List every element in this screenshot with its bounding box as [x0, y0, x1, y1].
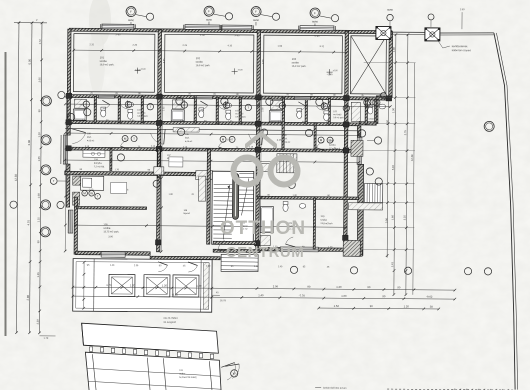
- bubble row lower: [121, 259, 128, 266]
- partition wall bath 7: [282, 98, 284, 124]
- wall pier left kitchen: [73, 176, 81, 185]
- svg-text:kerítéselemek: kerítéselemek: [452, 45, 468, 48]
- svg-text:4.01: 4.01: [26, 220, 30, 226]
- hatch band right side: [349, 203, 383, 210]
- interior small circles: [176, 97, 183, 104]
- svg-text:16,9 m2 park.: 16,9 m2 park.: [196, 64, 211, 67]
- outer wall bottom mid: [150, 256, 220, 260]
- svg-text:3.12: 3.12: [319, 45, 324, 48]
- terrace door arc 2: [188, 265, 197, 272]
- svg-text:2.36: 2.36: [134, 265, 139, 267]
- svg-text:16,9 m2 park.: 16,9 m2 park.: [100, 63, 115, 66]
- outer wall top: [69, 28, 392, 34]
- svg-text:1.72: 1.72: [38, 39, 42, 45]
- bubble right col 1: [373, 99, 380, 106]
- right dim ticks/labels: [395, 33, 398, 36]
- right dim vline a: [394, 35, 396, 295]
- bath window wall openings: [98, 95, 114, 98]
- svg-text:F: F: [255, 10, 257, 14]
- vert dim mid x163: [161, 97, 162, 252]
- bubble right col 3: [366, 168, 373, 175]
- svg-text:3=90: 3=90: [314, 36, 320, 38]
- svg-text:külön terv szerint: külön terv szerint: [452, 49, 471, 52]
- svg-text:12.38: 12.38: [410, 154, 414, 161]
- svg-text:1.20: 1.20: [196, 284, 202, 288]
- svg-text:közl.: közl.: [185, 137, 190, 139]
- dim chain lower rooms: [75, 225, 345, 227]
- svg-text:wc-fürdő: wc-fürdő: [235, 112, 244, 115]
- svg-text:90: 90: [370, 304, 374, 308]
- grid bubble top 1b: [146, 13, 153, 20]
- left dimension chain: [17, 23, 19, 333]
- svg-text:1.70: 1.70: [106, 283, 112, 287]
- grid bubble top 3: [251, 7, 261, 17]
- svg-text:4.65: 4.65: [164, 58, 166, 63]
- partition wall bath 3: [141, 97, 143, 123]
- partition wall bath 2: [118, 96, 120, 122]
- grid bubble top 2: [204, 6, 214, 16]
- partition right wing: [375, 98, 377, 123]
- svg-text:1.55: 1.55: [89, 188, 94, 191]
- svg-text:szoba: szoba: [292, 60, 300, 64]
- vert dim at x67: [65, 96, 66, 251]
- partition right unit b: [314, 123, 316, 150]
- steps right side: [365, 183, 383, 202]
- svg-text:közl.: közl.: [283, 138, 288, 140]
- svg-text:2.06: 2.06: [273, 284, 279, 288]
- svg-text:T: T: [247, 106, 249, 110]
- svg-text:berkbr tbd bötn terven: berkbr tbd bötn terven: [323, 387, 347, 390]
- svg-text:wc-fürdő: wc-fürdő: [333, 113, 342, 116]
- wall hall/mid y148: [68, 147, 359, 152]
- svg-text:4.10: 4.10: [227, 44, 232, 47]
- stair upper flight hatch: [277, 154, 297, 173]
- dim chain hall band: [65, 133, 359, 135]
- svg-text:1.40: 1.40: [110, 265, 115, 267]
- svg-text:1.62: 1.62: [334, 304, 340, 308]
- partition wall bath 8: [305, 98, 307, 124]
- vert dim x262: [260, 98, 261, 249]
- svg-text:3,9 m2 park: 3,9 m2 park: [235, 116, 246, 118]
- svg-text:F: F: [208, 9, 210, 13]
- svg-text:90/90: 90/90: [128, 20, 134, 22]
- svg-text:3,9 m2 park: 3,9 m2 park: [137, 116, 148, 118]
- window bay top 3: [222, 25, 252, 30]
- grid bubble top 4: [310, 8, 320, 18]
- bottom boundary dotted: [387, 388, 513, 390]
- dim chain mid band: [65, 160, 359, 162]
- svg-text:1.20: 1.20: [130, 283, 136, 287]
- watermark Otthon Centrum logo: [220, 131, 306, 261]
- svg-text:90/90: 90/90: [253, 20, 259, 22]
- grid bubble top 3b: [272, 13, 279, 20]
- wall rooms/bath y95: [69, 95, 391, 101]
- svg-text:38: 38: [430, 305, 434, 309]
- svg-text:7,2 m2 hid.: 7,2 m2 hid.: [94, 166, 105, 168]
- patio door arc: [227, 363, 235, 381]
- fence post 1: [376, 26, 391, 39]
- scan smudge top: [89, 0, 111, 46]
- svg-text:3,9 m2 park: 3,9 m2 park: [333, 117, 344, 119]
- svg-text:1.08: 1.08: [37, 193, 41, 199]
- outer wall right mid: [359, 122, 376, 125]
- svg-text:90: 90: [367, 285, 371, 289]
- kitchen fixtures left: [83, 150, 105, 157]
- unit divider wall 1: [156, 30, 161, 252]
- wall bath/hall y122: [69, 121, 360, 126]
- right extension lines: [364, 61, 416, 63]
- wall dining/living y207: [77, 206, 147, 209]
- svg-text:lépcső: lépcső: [183, 213, 190, 215]
- svg-text:103: 103: [292, 57, 297, 61]
- window bay top 4: [300, 26, 334, 31]
- svg-text:1.60: 1.60: [206, 266, 211, 268]
- partition wall bath 1: [94, 96, 96, 122]
- svg-text:T: T: [149, 105, 151, 109]
- svg-text:szoba: szoba: [103, 226, 111, 230]
- fence note leader: [437, 39, 443, 48]
- svg-text:2.25: 2.25: [182, 44, 187, 47]
- bubble right mid: [484, 121, 494, 131]
- svg-text:szoba: szoba: [100, 59, 108, 63]
- svg-text:szoba: szoba: [320, 219, 327, 222]
- svg-text:1.15: 1.15: [36, 217, 40, 223]
- wall block bottom right hatch: [343, 240, 360, 256]
- hatch pier hall1: [154, 167, 164, 175]
- room 103 inner outline: [263, 35, 342, 94]
- svg-text:3.25: 3.25: [402, 215, 406, 221]
- svg-text:-9.62: -9.62: [426, 295, 433, 299]
- outer wall right step: [376, 96, 390, 99]
- svg-text:1.50: 1.50: [460, 8, 465, 11]
- outer wall right upper: [389, 32, 393, 98]
- partition lower right: [313, 198, 315, 249]
- window bay top 1: [102, 24, 134, 29]
- svg-text:3=90: 3=90: [234, 35, 240, 37]
- svg-text:12.38: 12.38: [14, 174, 18, 181]
- svg-text:3=90: 3=90: [115, 34, 121, 36]
- svg-text:T: T: [97, 194, 99, 198]
- svg-text:2.20: 2.20: [36, 319, 40, 325]
- entry steps: [221, 254, 258, 271]
- bathroom unit2 fixtures: [172, 100, 184, 109]
- window bay left lower: [68, 210, 73, 233]
- entry door arc: [218, 240, 224, 250]
- partition hall 1: [110, 148, 112, 170]
- pantry room left: [81, 176, 104, 190]
- grid bubble top 1: [126, 7, 136, 17]
- bubble left D: [41, 200, 51, 210]
- chimney hatch block right: [351, 140, 363, 156]
- svg-text:90: 90: [307, 285, 311, 289]
- svg-text:W: W: [90, 191, 93, 195]
- bottom tick marks: [452, 389, 455, 390]
- svg-text:szoba: szoba: [329, 144, 336, 147]
- svg-text:D6-T6 7MM4: D6-T6 7MM4: [164, 317, 179, 320]
- bathroom unit3 fixtures: [270, 101, 282, 110]
- svg-text:2.31: 2.31: [89, 43, 94, 46]
- svg-text:1.70: 1.70: [43, 337, 48, 340]
- unit divider wall 3: [344, 31, 349, 248]
- unit divider wall 2: [256, 31, 261, 250]
- fence top rail: [391, 31, 425, 33]
- partition mid unit: [207, 149, 211, 244]
- svg-text:1.80: 1.80: [392, 47, 396, 53]
- fence diagonal right: [491, 33, 518, 390]
- svg-text:2.50: 2.50: [385, 119, 389, 125]
- bubble left B: [41, 135, 51, 145]
- outer wall left mid: [66, 164, 70, 207]
- svg-text:90/90: 90/90: [312, 21, 318, 23]
- bubble left F: [10, 201, 17, 208]
- dim chain bottom 2: [73, 296, 455, 299]
- bubble W terrace: [231, 370, 238, 377]
- bubble above post2: [428, 14, 434, 20]
- hatch pier mid: [258, 164, 270, 172]
- svg-text:közl.: közl.: [87, 137, 92, 139]
- svg-text:CENTRUM: CENTRUM: [226, 244, 305, 261]
- svg-text:3.90: 3.90: [108, 235, 113, 238]
- svg-text:1.40: 1.40: [278, 266, 283, 268]
- wall hall y128 line: [65, 129, 359, 131]
- svg-text:1.05: 1.05: [37, 156, 41, 162]
- partition kitchen right: [158, 149, 161, 178]
- svg-text:1.40: 1.40: [258, 293, 264, 297]
- svg-text:16,9 m2 park.: 16,9 m2 park.: [292, 65, 307, 68]
- terrace inner dim: [83, 262, 85, 308]
- partition wall bath 10: [365, 98, 367, 124]
- room 101 inner outline: [73, 34, 154, 93]
- bathroom unit1 fixtures: [74, 99, 86, 108]
- svg-text:1.20: 1.20: [162, 284, 168, 288]
- svg-text:4,05 m2: 4,05 m2: [185, 141, 193, 143]
- svg-text:3.25: 3.25: [277, 139, 282, 142]
- svg-text:OTTHON: OTTHON: [220, 218, 306, 239]
- svg-text:wc-fürdő: wc-fürdő: [137, 112, 146, 115]
- lower bath fixtures: [260, 207, 273, 233]
- room top-right inner outline: [350, 36, 386, 94]
- svg-text:F: F: [314, 11, 316, 15]
- wall right rooms y195: [258, 196, 359, 199]
- svg-text:F: F: [130, 10, 132, 14]
- wall junction piers: [66, 93, 72, 98]
- svg-text:1.98: 1.98: [227, 138, 232, 141]
- partition right unit a: [282, 98, 285, 150]
- svg-text:13,75 m2 park.: 13,75 m2 park.: [103, 230, 119, 233]
- window bottom right: [280, 247, 318, 252]
- bubble left C: [41, 165, 51, 175]
- svg-text:90: 90: [397, 285, 401, 289]
- dim chain y306 fragment: [319, 307, 439, 310]
- lower terrace railing band: [81, 323, 218, 358]
- svg-text:mdter: mdter: [179, 372, 185, 375]
- right wing fixtures: [351, 102, 360, 121]
- svg-text:2.36: 2.36: [254, 266, 259, 268]
- grid bubble top 4b: [331, 15, 338, 22]
- svg-text:1.20: 1.20: [37, 132, 41, 138]
- window right wall: [357, 137, 362, 164]
- fence rail to corner: [440, 31, 494, 34]
- svg-text:4,05 m2: 4,05 m2: [87, 140, 95, 142]
- svg-text:102: 102: [196, 56, 201, 60]
- scan smudge left: [88, 30, 104, 90]
- svg-text:5.16: 5.16: [391, 165, 395, 171]
- svg-text:13,9 m2/csh: 13,9 m2/csh: [320, 223, 333, 225]
- partition wall bath 4: [194, 97, 196, 123]
- bubble left E: [40, 227, 50, 237]
- outer wall bottom left: [76, 251, 151, 255]
- hall unit1 door arcs: [72, 133, 85, 144]
- terrace door arc 1: [158, 265, 167, 272]
- room center crosses: [135, 70, 141, 72]
- window bottom left living: [101, 252, 125, 257]
- window bay left: [63, 135, 67, 164]
- outer wall left upper: [67, 29, 71, 135]
- svg-text:1.20: 1.20: [336, 285, 342, 289]
- svg-text:90: 90: [382, 294, 386, 298]
- svg-text:konyha: konyha: [94, 162, 102, 165]
- svg-text:k.varda: k.varda: [367, 118, 374, 120]
- svg-text:4.65: 4.65: [263, 59, 265, 64]
- svg-text:T: T: [133, 137, 135, 141]
- bubble right col 2: [374, 137, 381, 144]
- fence post 2: [425, 28, 440, 41]
- dim chain top rooms: [74, 50, 347, 52]
- bubble left A: [41, 96, 51, 106]
- right dim vline b: [413, 63, 415, 295]
- svg-text:2.05: 2.05: [38, 77, 42, 83]
- svg-text:4,05 m2: 4,05 m2: [283, 142, 291, 144]
- partition wall bath 6: [239, 97, 241, 123]
- svg-text:1.99: 1.99: [277, 45, 282, 48]
- svg-text:T: T: [231, 137, 233, 141]
- window bay top 2: [185, 25, 220, 30]
- scan edge shadow left: [5, 52, 7, 336]
- staircase main flight: [212, 171, 254, 244]
- partition wall bath 5: [216, 97, 218, 123]
- hatch block stair left: [196, 171, 213, 180]
- svg-text:1.20: 1.20: [404, 304, 410, 308]
- svg-text:-3.40: -3.40: [172, 293, 179, 297]
- dim chain bath band: [65, 104, 390, 107]
- svg-text:T: T: [53, 179, 55, 183]
- svg-text:5.05: 5.05: [28, 59, 32, 65]
- kitchen unit2 table: [169, 157, 183, 167]
- svg-text:1.60: 1.60: [390, 215, 394, 221]
- svg-text:-7.70: -7.70: [299, 294, 306, 298]
- svg-text:2.75: 2.75: [403, 130, 407, 136]
- svg-text:3=90: 3=90: [200, 35, 206, 37]
- svg-text:3.40: 3.40: [348, 59, 350, 64]
- svg-text:101: 101: [100, 55, 105, 59]
- svg-text:fel.üvegtető: fel.üvegtető: [164, 321, 177, 324]
- svg-text:3.08: 3.08: [27, 140, 31, 146]
- outer wall left lower: [74, 197, 78, 254]
- svg-text:1.60: 1.60: [341, 294, 347, 298]
- room top-right diagonals: [350, 36, 386, 94]
- outer wall right lower: [357, 164, 363, 255]
- svg-text:N,70m2/TR.3AM2: N,70m2/TR.3AM2: [179, 376, 197, 379]
- svg-text:2.98: 2.98: [26, 295, 30, 301]
- dining table: [111, 182, 127, 193]
- outer wall right corner: [350, 250, 362, 257]
- svg-text:2.20: 2.20: [132, 44, 137, 47]
- partition wall bath 9: [328, 98, 330, 124]
- svg-text:1.25: 1.25: [36, 272, 40, 278]
- wall mid y170: [65, 171, 213, 176]
- dim chain bottom long: [73, 287, 455, 290]
- svg-text:90/90: 90/90: [387, 10, 393, 12]
- svg-text:1.41: 1.41: [390, 262, 394, 268]
- svg-text:90/90: 90/90: [206, 20, 212, 22]
- upper terrace with three skylights: [73, 259, 212, 313]
- corridor hatch strip: [173, 127, 199, 132]
- svg-text:+2,85: +2,85: [327, 73, 334, 76]
- lower patio slab: [85, 352, 221, 390]
- grid bubble top 2b: [225, 13, 232, 20]
- svg-text:1.30: 1.30: [391, 108, 395, 114]
- outer wall bottom right: [257, 247, 345, 251]
- bubble pair dining: [50, 178, 57, 185]
- room 102 inner outline: [164, 34, 253, 93]
- hall unit3 door arcs: [249, 134, 262, 145]
- svg-text:105: 105: [103, 222, 108, 226]
- svg-text:3.90: 3.90: [384, 217, 388, 223]
- svg-text:szoba: szoba: [196, 60, 204, 64]
- hall unit2 door arcs: [151, 133, 164, 144]
- outer wall bottom entry: [213, 249, 260, 252]
- svg-text:16.78: 16.78: [220, 299, 227, 302]
